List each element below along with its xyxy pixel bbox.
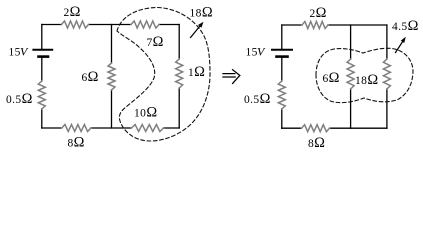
svg-text:1Ω: 1Ω [188,64,205,80]
resistor 1ohm (left circuit, right rail) [176,59,183,88]
resistor 0.5ohm (left circuit, left rail) [38,81,45,109]
svg-text:V: V [257,45,266,59]
resistor 6ohm (right circuit, middle branch) [347,59,354,89]
wire right circuit right rail [386,25,388,128]
wire left circuit left rail [41,25,43,129]
wire left circuit middle branch [111,25,113,129]
svg-text:18Ω: 18Ω [355,72,378,88]
svg-text:7Ω: 7Ω [147,34,164,50]
svg-text:0.5Ω: 0.5Ω [244,91,271,107]
wire left circuit bottom rail [42,127,179,129]
implies arrow between circuits [223,70,240,84]
battery V2 15V (right circuit) [272,50,292,57]
resistor 18ohm (right circuit, right rail) [383,59,390,89]
resistor 2ohm (left circuit, top) [62,21,89,28]
svg-text:4.5Ω: 4.5Ω [392,18,419,34]
resistor 2ohm (right circuit, top) [302,22,328,29]
dashed equivalence loop around 6 and 18 ohm (peanut shape) [316,48,413,102]
wire right circuit middle branch [350,25,352,128]
svg-text:8Ω: 8Ω [308,135,325,151]
label 15V (left circuit) [9,45,30,59]
resistor 7ohm (left circuit, top right) [131,21,159,28]
svg-text:15: 15 [246,47,258,59]
svg-text:2Ω: 2Ω [64,4,81,20]
wire left circuit top rail [42,24,179,26]
svg-text:6Ω: 6Ω [82,69,99,85]
svg-text:15: 15 [9,47,21,59]
arrow to 4.5ohm label [396,37,406,53]
wire right circuit top rail [282,24,387,26]
svg-text:8Ω: 8Ω [68,135,85,151]
resistor 8ohm (left circuit, bottom) [62,125,91,132]
wire right circuit bottom rail [282,127,387,129]
resistor 6ohm (left circuit, middle branch) [108,63,115,90]
svg-text:18Ω: 18Ω [190,5,213,21]
svg-text:2Ω: 2Ω [310,5,327,21]
label 15V (right circuit) [246,45,267,59]
wire left circuit right rail [178,25,180,129]
arrow to 18ohm label [191,22,204,38]
resistor 0.5ohm (right circuit, left rail) [278,81,285,109]
resistor 8ohm (right circuit, bottom) [302,125,330,132]
battery V1 15V (left circuit) [33,50,52,57]
dashed equivalence loop around 7, 1 and 10 ohm (bean shape) [117,8,210,142]
resistor 10ohm (left circuit, bottom right) [132,125,164,132]
svg-text:6Ω: 6Ω [323,70,340,86]
wire right circuit left rail [281,25,283,128]
svg-text:V: V [20,45,29,59]
svg-text:0.5Ω: 0.5Ω [6,91,33,107]
svg-text:10Ω: 10Ω [134,105,157,121]
